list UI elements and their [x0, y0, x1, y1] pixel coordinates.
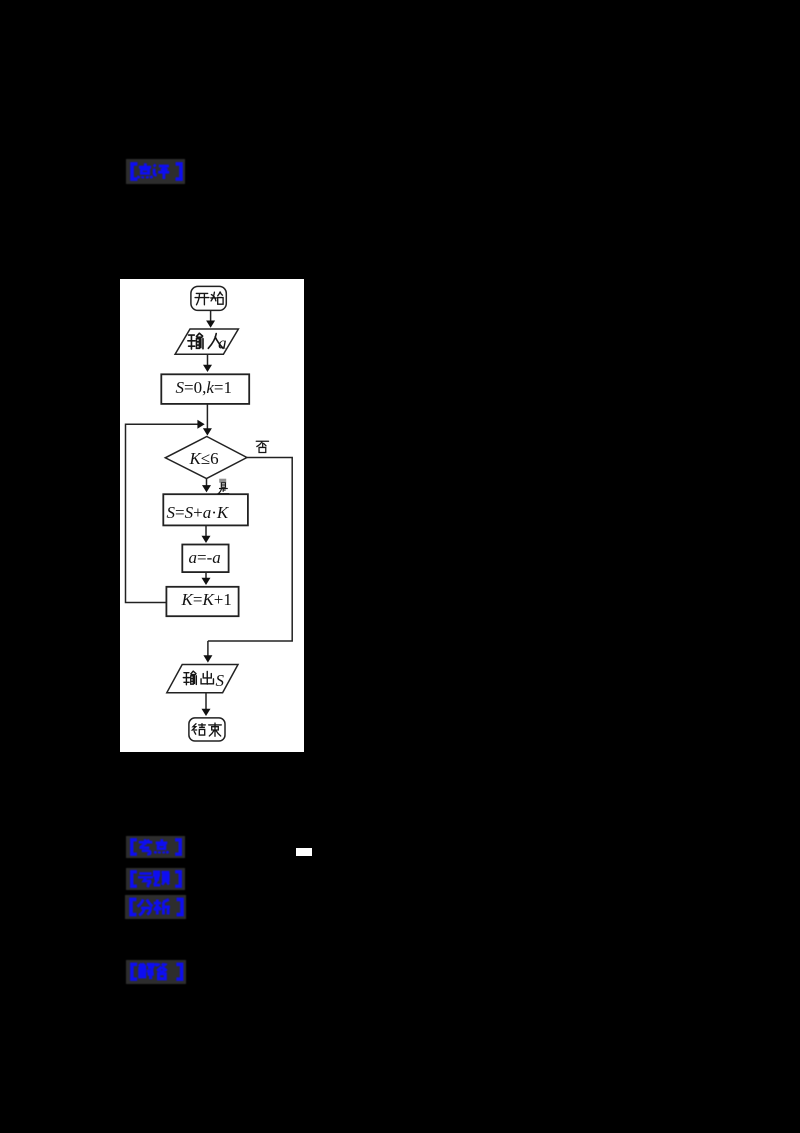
input parallelogram [175, 329, 238, 354]
math texts [167, 334, 232, 691]
shared CJK glyph defs [0, 0, 1, 1]
yes arrow line [206, 479, 208, 487]
svg-text:S=S+a·K: S=S+a·K [167, 503, 230, 522]
no branch [208, 458, 292, 642]
arrowheads [197, 321, 215, 717]
a=-a rect [182, 545, 228, 573]
end box [189, 718, 225, 741]
flowchart panel [120, 279, 304, 752]
input -> S=0 line [207, 354, 209, 366]
S=S+aK rect [163, 494, 248, 525]
feedback loop [126, 424, 199, 602]
svg-text:S: S [216, 671, 225, 690]
white answer box [296, 848, 312, 856]
label [jieda] [126, 960, 187, 985]
svg-text:K≤6: K≤6 [189, 449, 219, 468]
start box [191, 286, 226, 310]
diamond [165, 437, 247, 479]
label [kaodian] [126, 836, 186, 859]
no branch arrow down into output [207, 641, 209, 657]
label [dianping] top [126, 159, 186, 185]
S=0,k=1 rect [161, 374, 249, 404]
CJK glyphs in flowchart [183, 292, 268, 736]
K=K+1 rect [166, 587, 238, 616]
start -> input line [210, 311, 212, 322]
label [zhuanti] [126, 868, 186, 891]
svg-text:a: a [218, 334, 227, 353]
label [fenxi] [125, 895, 187, 920]
svg-text:K=K+1: K=K+1 [181, 590, 232, 609]
S=0 -> diamond line [206, 404, 208, 430]
svg-text:a=-a: a=-a [189, 548, 221, 567]
gray artifact box above shi4 [219, 479, 226, 483]
svg-text:S=0,k=1: S=0,k=1 [176, 378, 232, 397]
output parallelogram [167, 665, 238, 693]
